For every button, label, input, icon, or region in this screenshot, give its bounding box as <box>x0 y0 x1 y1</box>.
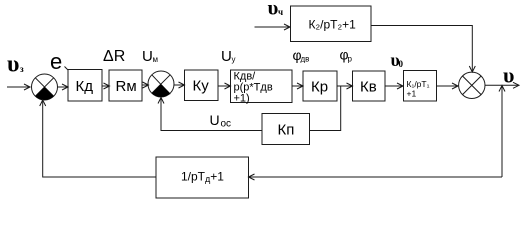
svg-text:К₁/рТ₁: К₁/рТ₁ <box>407 79 430 89</box>
wire K1 to summer 3 <box>437 83 459 89</box>
wire input arrow into summer 1 <box>7 84 30 90</box>
node label dR <box>103 48 125 65</box>
node output label v <box>503 63 514 88</box>
svg-text:з: з <box>20 64 24 74</box>
svg-text:e: e <box>50 49 62 74</box>
svg-text:Кв: Кв <box>360 79 377 96</box>
wire Kp output to summer 2 from below <box>158 98 262 131</box>
block K1 first order lag <box>404 71 437 102</box>
node input label v_ch <box>268 0 284 20</box>
block Rm <box>109 70 142 101</box>
svg-text:дв: дв <box>301 55 310 64</box>
svg-text:Кп: Кп <box>278 122 295 139</box>
svg-text:U: U <box>221 48 232 65</box>
node label phi_r <box>340 47 353 64</box>
svg-text:Кр: Кр <box>311 79 328 96</box>
block 1/pTd+1 feedback transfer function <box>156 157 249 198</box>
svg-text:ΔR: ΔR <box>103 48 125 65</box>
wire summer2 to Ky <box>174 82 185 88</box>
wire feedback left back to summer 1 <box>40 100 156 177</box>
wire Kd to Rm <box>102 83 110 89</box>
svg-text:+1): +1) <box>234 93 250 105</box>
svg-text:Ку: Ку <box>193 78 210 95</box>
wire K2 output to summer 3 from top <box>371 26 475 73</box>
svg-text:υ: υ <box>268 0 279 20</box>
node label Um <box>142 48 158 65</box>
svg-text:1/рТд+1: 1/рТд+1 <box>181 170 224 185</box>
wire Ky to Kdv <box>218 83 231 89</box>
svg-text:р: р <box>348 55 353 64</box>
block Kv <box>353 71 386 101</box>
wire feedback bottom into Tdt block <box>249 174 503 180</box>
wire output tap down feedback right side <box>499 86 505 178</box>
node label phi_dv <box>293 47 310 64</box>
svg-text:υ: υ <box>7 52 19 78</box>
svg-text:Кд: Кд <box>76 78 94 95</box>
wire Kdv to Kr <box>292 83 303 89</box>
block Kdv motor transfer function <box>231 70 293 105</box>
svg-text:ос: ос <box>221 119 232 130</box>
svg-text:U: U <box>210 112 220 128</box>
node input label v3 <box>7 52 24 78</box>
block Kd <box>68 70 102 102</box>
node label Uoc <box>210 112 232 130</box>
wire Kr to Kv with tap node <box>337 83 353 89</box>
svg-text:+1: +1 <box>407 89 417 99</box>
node label e <box>50 49 62 74</box>
summing junction 2 <box>148 71 174 97</box>
block K2 first order lag <box>291 6 372 42</box>
svg-text:0: 0 <box>399 59 404 69</box>
svg-text:U: U <box>142 48 153 65</box>
wire Rm to summer 2 <box>142 82 149 88</box>
block Kr <box>303 71 337 101</box>
svg-text:Rм: Rм <box>116 78 137 95</box>
wire summer1 to Kd <box>58 67 69 91</box>
block Kp feedback gain <box>262 114 310 145</box>
svg-text:υ: υ <box>503 63 514 88</box>
svg-text:м: м <box>153 55 159 64</box>
wire input v_ch into K2 <box>255 24 291 30</box>
wire tap down from main line to Kp input <box>310 86 341 131</box>
node label Uy <box>221 48 236 65</box>
wire output arrow <box>485 82 519 88</box>
node label v0 <box>391 50 404 70</box>
summing junction 1 <box>32 74 58 100</box>
summing junction 3 <box>459 72 485 98</box>
svg-text:ч: ч <box>278 7 283 17</box>
block Ky <box>185 70 219 101</box>
svg-text:у: у <box>232 55 236 64</box>
svg-text:К₂/рТ₂+1: К₂/рТ₂+1 <box>309 18 357 32</box>
wire Kv to K1 <box>385 83 403 89</box>
